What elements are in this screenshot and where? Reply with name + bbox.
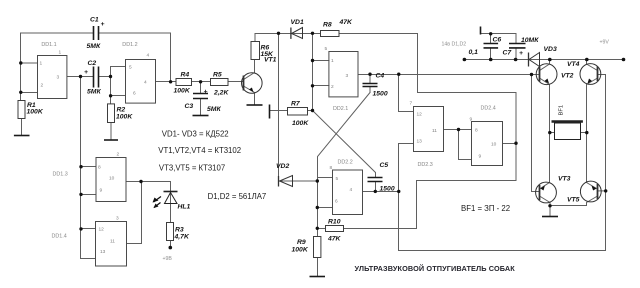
svg-text:100K: 100K: [27, 109, 44, 116]
svg-text:R10: R10: [328, 219, 341, 226]
wire DD1.2 output to R4: [156, 81, 177, 83]
capacitor C3: [193, 94, 208, 99]
svg-text:3: 3: [346, 73, 349, 79]
svg-text:HL1: HL1: [178, 204, 191, 211]
svg-text:VT5: VT5: [567, 197, 580, 204]
wire VT1 emitter to ground: [244, 86, 255, 105]
node R3 +9V terminal: [169, 246, 173, 250]
svg-text:DD2.4: DD2.4: [481, 106, 496, 112]
svg-text:8: 8: [475, 128, 478, 134]
svg-text:4,7K: 4,7K: [174, 234, 190, 241]
wire R9 leads: [317, 229, 319, 276]
gate DD1.1: [38, 56, 67, 99]
wire DD1.3 DD1.4 input column: [81, 77, 97, 259]
svg-text:100K: 100K: [174, 88, 191, 95]
svg-text:5МК: 5МК: [87, 89, 101, 96]
svg-text:VT1: VT1: [264, 57, 277, 64]
wire DD1.1 pin2 stub: [21, 92, 38, 94]
wire VT3 collector to ground node: [540, 196, 551, 206]
node DD1.2 pin6 / R2: [109, 94, 112, 97]
svg-text:4: 4: [350, 187, 353, 193]
svg-text:+9В: +9В: [163, 256, 173, 262]
wire VT2 collector: [540, 60, 550, 71]
wire R7 to DD2.1 inputs: [308, 110, 313, 112]
wire R10 to DD2.4 output route: [318, 144, 517, 229]
node C2 / DD1.2 inputs: [109, 75, 112, 78]
wire VT2 VT3 base column: [532, 75, 540, 192]
node DD2.1 output / C4: [368, 73, 371, 76]
svg-text:+: +: [204, 89, 208, 96]
wire C7 leads: [515, 34, 517, 60]
svg-text:9: 9: [470, 117, 473, 123]
wire 14v supply stub: [481, 33, 517, 35]
svg-text:5: 5: [325, 46, 328, 52]
wire DD1.1 output to C2: [67, 76, 111, 78]
svg-text:+: +: [101, 21, 105, 28]
svg-text:УЛЬТРАЗВУКОВОЙ ОТПУГИВАТЕЛЬ СО: УЛЬТРАЗВУКОВОЙ ОТПУГИВАТЕЛЬ СОБАК: [355, 264, 516, 273]
transistor VT4: [580, 64, 601, 85]
svg-text:6: 6: [133, 91, 136, 97]
svg-text:DD1.1: DD1.1: [41, 42, 56, 48]
svg-text:VT3: VT3: [558, 176, 571, 183]
svg-text:+: +: [519, 50, 523, 57]
ground C3: [193, 115, 209, 117]
coupling bar at R7: [269, 105, 271, 119]
resistor R9: [314, 237, 321, 258]
node C7 / rail: [514, 58, 518, 62]
wire VT5 base stub: [598, 190, 606, 192]
wire VT2 base from node: [532, 74, 540, 76]
wire DD2.4 output: [503, 143, 517, 145]
node DD2.2 output / C5: [374, 190, 377, 193]
gate DD2.2: [333, 170, 363, 215]
svg-text:0,1: 0,1: [469, 49, 479, 56]
svg-text:8: 8: [330, 165, 333, 171]
resistor R5: [211, 79, 229, 86]
ground VT3 VT5: [542, 216, 558, 218]
diode VD3: [529, 53, 540, 67]
node DD2.3 pin12 tap: [397, 73, 400, 76]
wire DD2.3 output to DD2.4 inputs: [444, 130, 472, 160]
svg-text:2: 2: [117, 152, 120, 158]
wire C4 leads: [369, 75, 371, 93]
wire VT4 collector: [587, 60, 598, 71]
svg-text:C2: C2: [88, 60, 97, 67]
node DD1.2 output / C1 feedback: [169, 80, 172, 83]
svg-text:2: 2: [331, 84, 334, 90]
svg-text:C3: C3: [185, 103, 194, 110]
node DD2.4 output: [514, 142, 517, 145]
node +9V terminal: [622, 58, 626, 62]
wire VT4 emitter to BF1 right: [587, 78, 598, 133]
node VT2 base: [530, 73, 533, 76]
svg-text:R4: R4: [181, 72, 190, 79]
wire DD1.1 pin1 stub: [21, 62, 38, 64]
svg-text:C4: C4: [376, 73, 385, 80]
capacitor C4: [363, 84, 378, 87]
LED HL1: [153, 192, 178, 209]
wire R8 to feedback route: [339, 34, 516, 144]
wire VT2 emitter to BF1 left: [540, 78, 550, 133]
svg-text:10: 10: [109, 175, 115, 181]
svg-text:VT2: VT2: [561, 73, 574, 80]
capacitor C5: [368, 178, 383, 182]
wire cross diagonal B: [318, 93, 371, 182]
node DD2.3 output / DD2.4 inputs: [457, 128, 460, 131]
node VT2 collector / rail: [548, 58, 552, 62]
wire C1 feedback top net: [21, 33, 171, 136]
wire HL1 to R3: [170, 192, 172, 247]
transistor VT1: [242, 73, 263, 94]
wire DD2.1 output to VT2 base: [358, 74, 540, 76]
svg-text:VT3,VT5 = КТ3107: VT3,VT5 = КТ3107: [159, 164, 225, 173]
resistor R6: [251, 42, 260, 60]
resistor R3: [167, 223, 174, 241]
svg-text:3: 3: [116, 216, 119, 222]
node junction: [585, 131, 588, 134]
wire DD1.4 output parallel tie: [127, 182, 142, 244]
node DD1.4 pin12: [79, 227, 82, 230]
node R7 / diagonal A: [311, 109, 314, 112]
capacitor C6: [484, 44, 499, 48]
svg-text:VD1: VD1: [291, 19, 304, 26]
ground R9: [310, 276, 326, 278]
node C6 / rail: [489, 58, 493, 62]
ground R1: [14, 135, 30, 137]
svg-text:VD2: VD2: [276, 163, 289, 170]
node DD1.1 pin2 / R1: [19, 91, 22, 94]
svg-text:4: 4: [144, 80, 147, 86]
node DD2.2 pin6: [316, 206, 319, 209]
wire C5 leads: [375, 182, 377, 192]
wire ground node to VT5 collector: [550, 196, 598, 206]
transistor VT3: [536, 182, 557, 203]
svg-text:+9V: +9V: [600, 40, 610, 46]
svg-text:100K: 100K: [292, 120, 309, 127]
transistor VT2: [536, 64, 557, 85]
node DD2.1 pin1: [311, 59, 314, 62]
node DD2.2 output / DD2.3 pin13: [397, 190, 400, 193]
svg-text:ВF1 = ЗП - 22: ВF1 = ЗП - 22: [461, 204, 510, 213]
svg-text:14в D1,D2: 14в D1,D2: [442, 42, 467, 48]
wire DD1.3 output to HL1: [126, 182, 171, 192]
node C6 / 14v wire: [489, 32, 492, 35]
gate DD2.3: [414, 107, 444, 152]
svg-text:7: 7: [410, 101, 413, 107]
svg-text:5МК: 5МК: [207, 106, 221, 113]
svg-text:ВF1: ВF1: [559, 105, 565, 116]
svg-text:8: 8: [98, 165, 101, 171]
ground R2: [104, 139, 118, 141]
node DD1.3/DD1.4 outputs: [139, 180, 142, 183]
svg-text:D1,D2 = 561ЛА7: D1,D2 = 561ЛА7: [208, 192, 267, 201]
speaker BF1: [552, 122, 583, 140]
svg-text:1500: 1500: [373, 91, 388, 98]
svg-text:100K: 100K: [116, 114, 133, 121]
ground VT1: [247, 104, 263, 106]
wire R6 top to VD1 node: [255, 34, 303, 42]
svg-text:DD2.3: DD2.3: [418, 162, 433, 168]
svg-text:DD2.2: DD2.2: [338, 160, 353, 166]
svg-text:5МК: 5МК: [87, 43, 101, 50]
node VT3 VT5 collectors / ground: [548, 204, 551, 207]
wire DD2.3 pin13: [399, 143, 414, 145]
wire BF1 right to VT5 emitter: [587, 133, 598, 190]
wire DD1.2 input tie: [111, 67, 126, 96]
svg-text:DD2.1: DD2.1: [333, 106, 348, 112]
capacitor C2: [94, 67, 99, 88]
wire cross diagonal A: [313, 111, 376, 178]
svg-text:VD1- VD3 = КД522: VD1- VD3 = КД522: [162, 130, 229, 139]
svg-text:R2: R2: [117, 107, 126, 114]
node DD1.3 pin9: [79, 193, 82, 196]
wire BF1 left to VT3 emitter: [549, 133, 551, 183]
node R9 / R10: [316, 227, 319, 230]
wire C3 leads: [200, 82, 202, 115]
svg-text:1: 1: [59, 50, 62, 56]
svg-text:+: +: [84, 69, 88, 76]
svg-text:R3: R3: [175, 227, 184, 234]
resistor R1: [18, 101, 25, 119]
svg-text:R7: R7: [291, 101, 301, 108]
svg-text:R9: R9: [297, 239, 306, 246]
svg-text:10: 10: [491, 142, 497, 148]
svg-text:9: 9: [100, 188, 103, 194]
svg-text:C5: C5: [380, 162, 389, 169]
svg-text:4: 4: [147, 53, 150, 59]
node R4-R5 / C3: [199, 80, 202, 83]
wire BF1 connections: [550, 132, 587, 134]
resistor R8: [321, 31, 340, 37]
wire DD2.2 output: [363, 191, 399, 193]
svg-text:R8: R8: [323, 22, 332, 29]
gate DD1.4: [96, 222, 127, 267]
gate DD2.1: [329, 52, 358, 97]
node DD2.1 pin2: [311, 84, 314, 87]
wire VD1 anode to R8 node: [303, 33, 321, 35]
svg-text:5: 5: [336, 176, 339, 182]
wire VD2 anode to DD2.2 inputs: [279, 180, 318, 182]
wire cap bar to R7: [271, 110, 288, 112]
diode VD1: [292, 28, 303, 39]
svg-text:5: 5: [129, 65, 132, 71]
wire R4 to R5 node: [192, 81, 211, 83]
svg-text:6: 6: [335, 198, 338, 204]
node VT5 base: [604, 189, 607, 192]
svg-text:1500: 1500: [380, 186, 395, 193]
svg-text:2: 2: [41, 83, 44, 89]
svg-text:C7: C7: [503, 50, 513, 57]
svg-text:VD3: VD3: [544, 46, 557, 53]
node DD1.1 pin1 / C1 net: [19, 61, 22, 64]
wire DD2.3 pin12: [399, 75, 414, 112]
wire VD2 cathode column: [278, 34, 280, 177]
svg-text:47K: 47K: [327, 236, 342, 243]
wire VT1 collector to R6: [244, 60, 255, 80]
wire C6 leads: [490, 34, 492, 60]
svg-text:DD1.4: DD1.4: [52, 234, 67, 240]
svg-text:VT4: VT4: [567, 61, 580, 68]
diode VD2: [280, 176, 293, 187]
svg-text:2,2K: 2,2K: [213, 90, 229, 97]
resistor R7: [288, 108, 308, 116]
wire DD2.1 input tie: [313, 34, 330, 111]
node R6 / VD1 / VD2 column: [277, 32, 280, 35]
svg-text:VT1,VT2,VT4 = КТ3102: VT1,VT2,VT4 = КТ3102: [158, 146, 241, 155]
svg-text:3: 3: [57, 75, 60, 81]
capacitor C1: [94, 26, 99, 40]
svg-text:DD1.3: DD1.3: [53, 172, 68, 178]
resistor R10: [326, 226, 344, 232]
svg-text:12: 12: [99, 227, 105, 233]
svg-text:1: 1: [40, 61, 43, 67]
node VT4 collector / rail: [585, 58, 589, 62]
node rail left terminal: [463, 58, 467, 62]
transistor VT5: [580, 181, 601, 202]
node BF1 left: [548, 131, 551, 134]
capacitor C7: [509, 44, 526, 48]
svg-text:11: 11: [432, 128, 437, 134]
wire DD2.2 input tie: [318, 178, 333, 229]
node VD1 anode / R8: [311, 32, 314, 35]
resistor R2: [108, 104, 115, 123]
svg-text:1: 1: [331, 58, 334, 64]
wire R2 to ground: [110, 96, 113, 140]
svg-text:13: 13: [417, 139, 423, 145]
svg-text:13: 13: [100, 249, 106, 255]
svg-text:R5: R5: [213, 72, 222, 79]
wire R5 to VT1 base: [228, 81, 244, 83]
svg-text:C1: C1: [90, 17, 99, 24]
svg-text:9: 9: [479, 154, 482, 160]
node DD1.3 pin8: [79, 165, 82, 168]
svg-text:10МК: 10МК: [521, 37, 539, 44]
svg-text:47K: 47K: [339, 19, 354, 26]
terminal bar 14v: [480, 27, 482, 35]
gate DD2.4: [472, 122, 503, 166]
node VD2 anode / DD2.2 pin5: [316, 179, 319, 182]
svg-text:100K: 100K: [292, 247, 309, 254]
resistor R4: [176, 79, 192, 86]
svg-text:11: 11: [110, 238, 115, 244]
wire VT3 emitter diag: [540, 183, 550, 190]
gate DD1.3: [96, 158, 126, 202]
wire +9V rail: [465, 59, 624, 61]
gate DD1.2: [126, 60, 156, 104]
node DD1.1 output: [79, 75, 82, 78]
svg-text:C6: C6: [493, 37, 502, 44]
wire DD2.2 output route to VT4 VT5 bases: [399, 75, 606, 251]
wire ground stub: [549, 206, 551, 216]
svg-text:DD1.2: DD1.2: [122, 42, 137, 48]
svg-text:12: 12: [417, 112, 423, 118]
